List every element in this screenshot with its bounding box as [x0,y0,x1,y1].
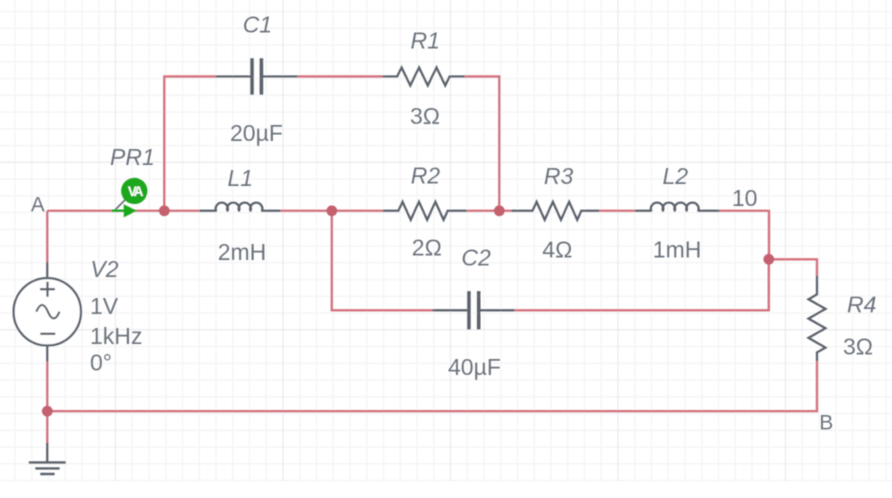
svg-text:4Ω: 4Ω [542,236,572,262]
svg-text:L1: L1 [228,165,254,191]
svg-text:V2: V2 [90,256,118,282]
svg-text:C1: C1 [243,11,272,37]
svg-text:2mH: 2mH [218,239,267,265]
svg-text:20µF: 20µF [230,120,283,146]
svg-text:3Ω: 3Ω [843,334,873,360]
svg-text:1kHz: 1kHz [90,323,142,349]
svg-text:40µF: 40µF [448,354,501,380]
svg-text:0°: 0° [90,350,112,376]
svg-text:A: A [31,193,45,216]
svg-text:PR1: PR1 [110,144,155,170]
svg-text:10: 10 [732,185,758,211]
svg-text:3Ω: 3Ω [410,103,440,129]
svg-text:C2: C2 [461,245,491,271]
svg-text:R2: R2 [411,163,441,189]
svg-text:B: B [819,412,833,435]
svg-text:1mH: 1mH [653,236,702,262]
svg-text:2Ω: 2Ω [412,234,442,260]
svg-text:R4: R4 [847,291,876,317]
svg-text:R3: R3 [544,163,574,189]
svg-text:L2: L2 [663,163,689,189]
svg-text:1V: 1V [90,293,119,319]
svg-text:R1: R1 [411,28,440,54]
